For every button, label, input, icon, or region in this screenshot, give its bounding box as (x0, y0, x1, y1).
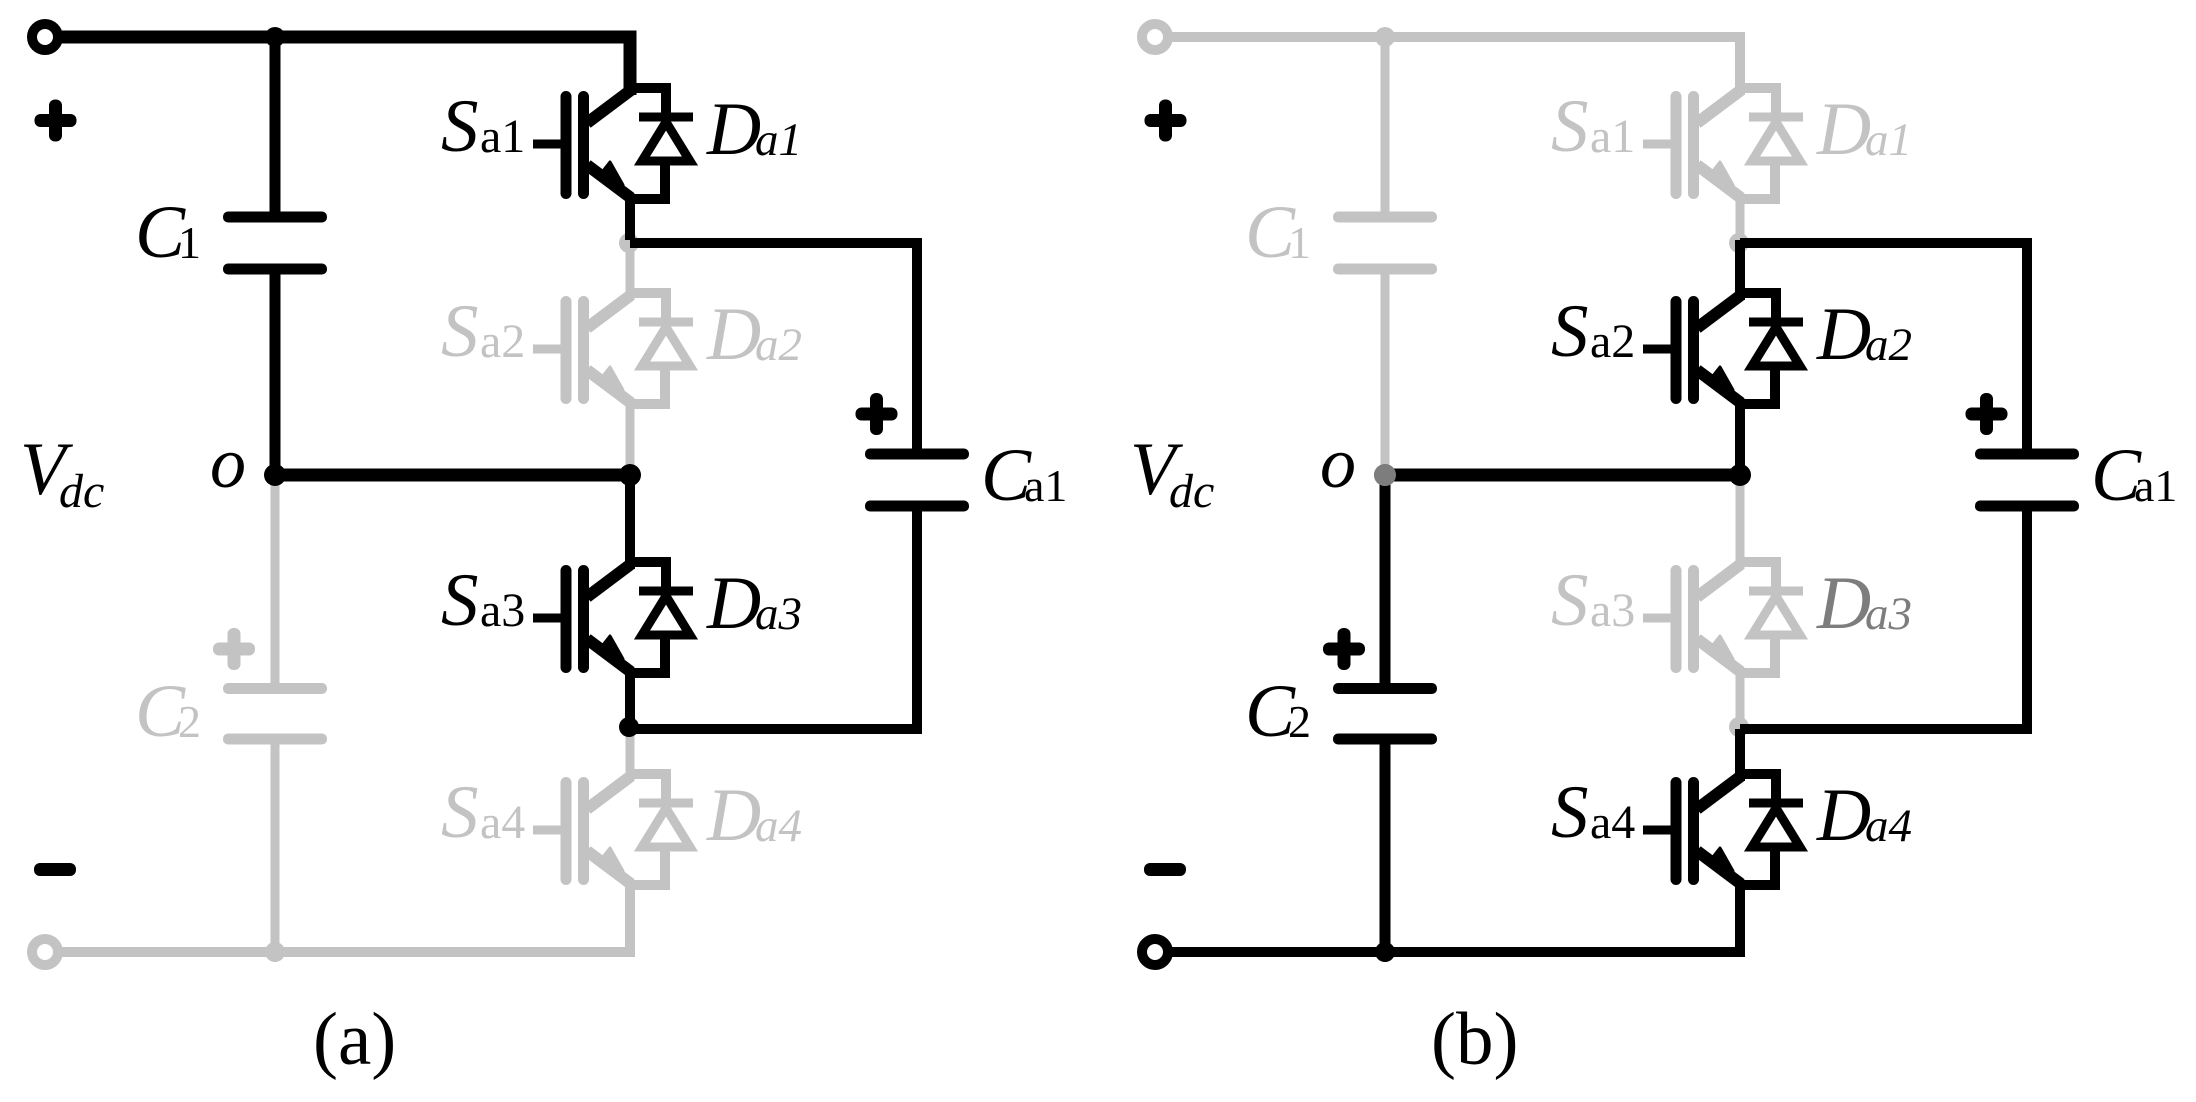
junction Sa1/Sa2 node (a) (619, 233, 639, 253)
svg-text:a3: a3 (755, 588, 802, 640)
junction bottom rail (b) (1375, 942, 1395, 962)
svg-text:o: o (1320, 423, 1356, 503)
diode Da1 (b) (1739, 88, 1803, 199)
svg-text:a3: a3 (1590, 584, 1635, 637)
diode Da4 (a) (629, 774, 693, 885)
plus label of Vdc (b) (1145, 100, 1187, 142)
transistor Sa1 (a) (533, 90, 631, 198)
transistor Sa2 (a) (533, 295, 631, 403)
diode Da3 (a) (629, 562, 693, 673)
svg-text:S: S (1551, 290, 1589, 373)
junction Sa3/Sa4 node (b) (1729, 717, 1749, 737)
node o dark dot (b) (1374, 464, 1396, 486)
capacitor C2 (a) (223, 683, 327, 745)
transistor Sa3 (a) (533, 564, 631, 672)
wire C1 to o-node (a) (270, 274, 281, 475)
wire bottom rail (b) (1172, 883, 1740, 952)
wire mid rail to Sa3 collector (b) (1736, 475, 1745, 569)
junction mid rail (b) (1729, 464, 1751, 486)
svg-text:S: S (1551, 559, 1589, 642)
wire node to Sa2 collector (b) (1735, 240, 1745, 300)
transistor Sa3 (b) (1643, 564, 1741, 672)
junction bottom rail (a) (265, 942, 285, 962)
diode Da4 (b) (1739, 774, 1803, 885)
plus label of C2 (a) (213, 628, 255, 670)
svg-text:(a): (a) (313, 998, 396, 1081)
terminal positive (a) (32, 24, 58, 50)
wire Sa3 emitter to node B (a) (625, 670, 635, 729)
svg-text:D: D (706, 774, 761, 857)
wire Sa2 emitter to mid rail (b) (1735, 401, 1745, 475)
wire C2 to bottom rail (a) (271, 744, 280, 952)
svg-text:a4: a4 (480, 796, 525, 849)
svg-text:a2: a2 (480, 315, 525, 368)
svg-text:S: S (441, 85, 479, 168)
svg-text:S: S (1551, 771, 1589, 854)
capacitor C2 (b) (1333, 683, 1437, 745)
wire top rail (b) (1172, 37, 1740, 95)
capacitor Ca1 (b) (1975, 449, 2079, 512)
wire o-node to C2 (a) (271, 475, 280, 683)
junction top rail (a) (265, 27, 285, 47)
svg-text:S: S (441, 290, 479, 373)
plus label of Ca1 (a) (856, 393, 898, 435)
wire mid rail (b) (1385, 469, 1740, 482)
wire Ca1 bottom to node B (b) (1740, 511, 2027, 729)
svg-text:a1: a1 (480, 110, 525, 163)
capacitor C1 (b) (1333, 212, 1437, 275)
svg-text:a1: a1 (755, 114, 802, 166)
plus label of C2 (b) (1323, 628, 1365, 670)
wire Sa2 emitter to mid rail (a) (626, 401, 635, 475)
svg-text:2: 2 (1288, 696, 1311, 747)
wire Sa1 emitter to node (b) (1736, 195, 1745, 240)
diode Da3 (b) (1739, 562, 1803, 673)
wire top rail (a) (62, 37, 630, 95)
svg-text:D: D (706, 562, 761, 645)
junction Sa3/Sa4 node (a) (619, 717, 639, 737)
svg-text:S: S (1551, 85, 1589, 168)
wire bottom rail (a) (62, 883, 630, 952)
wire top rail to C1 (b) (1381, 40, 1390, 212)
svg-text:1: 1 (178, 217, 201, 268)
wire node B to Sa4 collector (b) (1735, 729, 1745, 781)
terminal positive (b) (1142, 24, 1168, 50)
svg-text:D: D (1816, 88, 1871, 171)
plus label of Vdc (a) (35, 100, 77, 142)
svg-text:a2: a2 (1865, 319, 1912, 371)
wire Sa1 emitter to node (a) (625, 195, 635, 240)
node o (a) (264, 464, 286, 486)
svg-text:a4: a4 (1590, 796, 1635, 849)
capacitor Ca1 (a) (865, 449, 969, 512)
minus label of Vdc (b) (1144, 863, 1186, 876)
wire Sa3 emitter to node B (b) (1736, 670, 1745, 729)
svg-text:a1: a1 (2134, 460, 2177, 511)
transistor Sa1 (b) (1643, 90, 1741, 198)
wire node to Ca1 top (b) (1740, 243, 2027, 449)
svg-text:S: S (441, 771, 479, 854)
svg-text:(b): (b) (1431, 998, 1518, 1081)
diode Da2 (b) (1739, 293, 1803, 404)
node o (b) (1374, 464, 1396, 486)
svg-text:dc: dc (59, 465, 104, 518)
svg-text:a4: a4 (755, 800, 802, 852)
diode Da2 (a) (629, 293, 693, 404)
svg-text:a2: a2 (1590, 315, 1635, 368)
diode Da1 (a) (629, 88, 693, 199)
wire node to Sa2 collector (a) (626, 240, 635, 300)
wire Ca1 bottom to node B (a) (630, 511, 917, 729)
svg-text:a1: a1 (1024, 460, 1067, 511)
svg-text:D: D (706, 88, 761, 171)
wire C2 to bottom rail (b) (1380, 744, 1391, 952)
junction top rail (b) (1375, 27, 1395, 47)
svg-text:a1: a1 (1590, 110, 1635, 163)
junction Sa1/Sa2 node (b) (1729, 233, 1749, 253)
wire C1 to o-node (b) (1381, 274, 1390, 475)
transistor Sa4 (b) (1643, 776, 1741, 884)
svg-text:o: o (210, 423, 246, 503)
wire mid rail (a) (275, 469, 630, 482)
svg-text:a2: a2 (755, 319, 802, 371)
plus label of Ca1 (b) (1966, 393, 2008, 435)
wire top rail to C1 (a) (270, 40, 281, 212)
svg-text:a3: a3 (1865, 588, 1912, 640)
terminal negative (a) (32, 939, 58, 965)
svg-text:D: D (1816, 562, 1871, 645)
wire mid rail to Sa3 collector (a) (625, 475, 635, 569)
terminal negative (b) (1142, 939, 1168, 965)
transistor Sa4 (a) (533, 776, 631, 884)
svg-text:a3: a3 (480, 584, 525, 637)
svg-text:1: 1 (1288, 217, 1311, 268)
svg-text:dc: dc (1169, 465, 1214, 518)
transistor Sa2 (b) (1643, 295, 1741, 403)
svg-text:D: D (1816, 293, 1871, 376)
svg-text:D: D (1816, 774, 1871, 857)
svg-text:a4: a4 (1865, 800, 1912, 852)
wire node to Ca1 top (a) (630, 243, 917, 449)
svg-text:D: D (706, 293, 761, 376)
svg-text:S: S (441, 559, 479, 642)
svg-text:a1: a1 (1865, 114, 1912, 166)
wire o-node to C2 (b) (1380, 475, 1391, 683)
wire node B to Sa4 collector (a) (626, 729, 635, 781)
junction mid rail (a) (619, 464, 641, 486)
capacitor C1 (a) (223, 212, 327, 275)
minus label of Vdc (a) (34, 863, 76, 876)
svg-text:2: 2 (178, 696, 201, 747)
